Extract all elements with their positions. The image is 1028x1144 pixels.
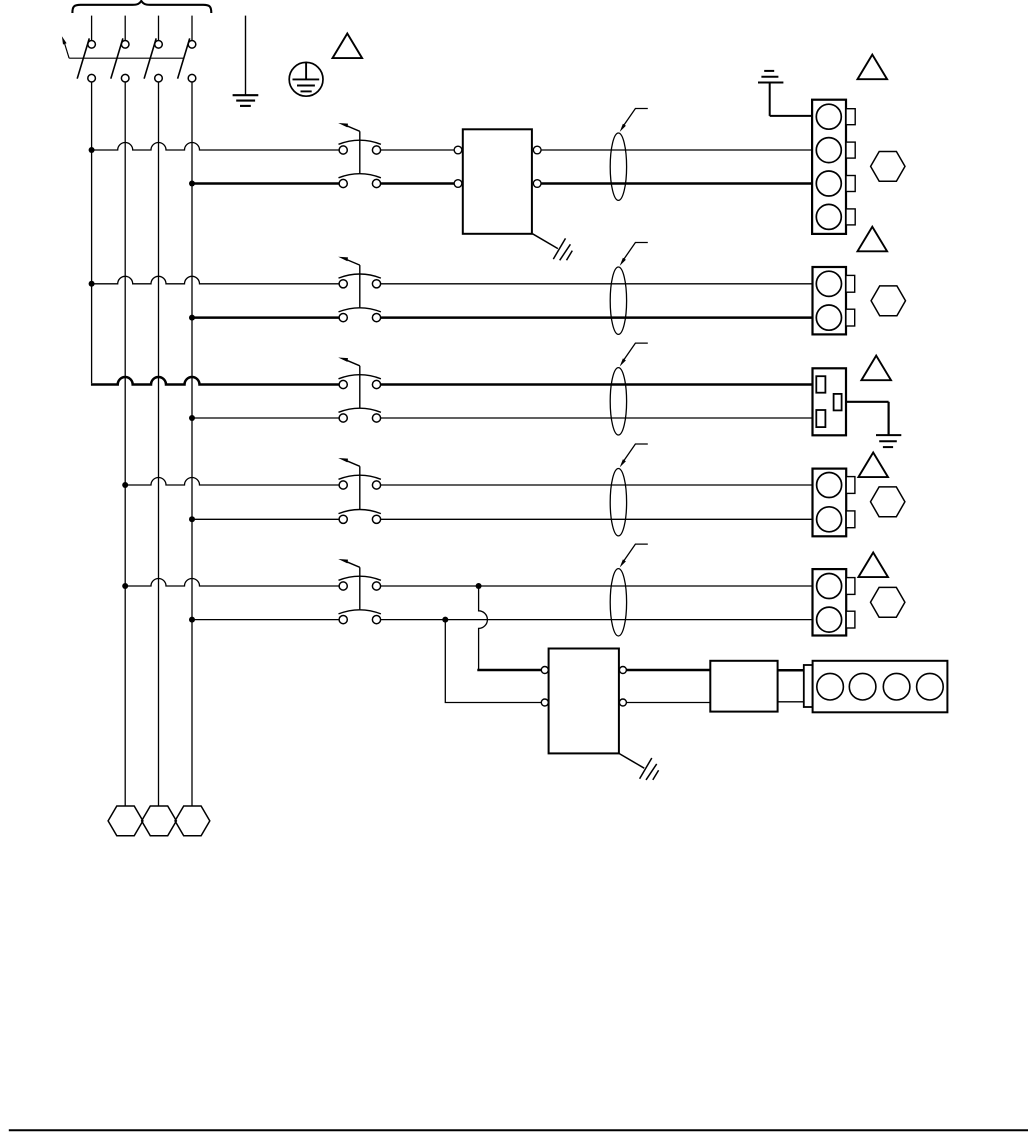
wire A2 out2 to plug [626,702,710,704]
triangle note marker row1 [858,55,888,80]
circuit breaker Q1 [338,123,381,188]
terminal A2 in2 [541,699,548,706]
hexagon note marker row2 [871,286,905,316]
brace grouping mains input [72,1,211,13]
connector X4 (2-pin) [813,469,855,537]
wire row1 bottom mid [381,182,455,185]
wire row3 top left [91,377,339,384]
terminal A1 in1 [454,146,462,154]
switch mechanical tie bar [69,57,183,59]
wire tap2 down to A2 [445,620,541,703]
wire row4 bottom right [381,518,813,520]
bus wire L4 vertical [191,82,193,806]
ground at X3 [846,402,901,447]
terminal A1 out1 [533,146,541,154]
wire row4 bottom left [192,518,339,520]
outlet strip X6 (4 sockets) [813,661,948,713]
disconnect switch pole 4 [178,16,196,82]
wire row5 top right [381,585,813,587]
hexagon marker L3 end [142,806,177,836]
node tap row5 top for A2 [476,583,482,589]
circuit breaker Q3 [338,358,381,423]
bus wire L3 vertical [158,82,160,806]
wire tap1 down to A2 [479,586,488,670]
filter box A1 [463,129,532,234]
circuit breaker Q2 [338,257,381,322]
cable shield W5 [610,569,626,636]
wire row5 bottom left [192,619,339,621]
node row4 tap L4 [189,516,195,522]
terminal A1 in2 [454,180,462,188]
wire plug link bottom [778,701,804,703]
node row4 tap L2 [122,482,128,488]
triangle note marker row2 [858,227,888,252]
triangle note marker (top) [333,34,363,59]
disconnect switch pole 3 [144,16,162,82]
disconnect switch pole 2 [111,16,129,82]
hexagon marker L4 end [175,806,210,836]
connector X1 (4-pin) [812,100,855,234]
leader arrow to shield W3 [620,343,648,366]
node row1 tap L1 [89,147,95,153]
triangle note marker row5 [858,553,888,578]
disconnect switch pole 1 [77,16,95,82]
terminal A2 out2 [619,699,626,706]
node row1 tap L4 [189,181,195,187]
triangle note marker row4 [858,453,888,478]
circuit breaker Q4 [338,458,381,523]
terminal A2 in1 [541,667,548,674]
node row5 tap L2 [122,583,128,589]
chassis ground at A2 [619,753,659,780]
filter box A2 [549,649,619,754]
terminal A2 out1 [619,667,626,674]
wire plug link top [778,669,804,672]
wire row1 top mid [381,149,455,151]
node tap row5 bottom for A2 [442,617,448,623]
node row3 tap L4 [189,415,195,421]
wire row1 bottom right [541,182,812,185]
wire row3 bottom right [381,417,813,419]
cable shield W2 [610,267,626,334]
terminal A1 out2 [533,180,541,188]
wire row2 top left [92,276,340,284]
switch actuator arrow [62,36,69,58]
wire row1 top left [92,143,340,150]
circuit breaker Q5 [338,559,381,624]
ground wire to X1 pin1 [758,71,812,116]
triangle note marker row3 [861,356,891,381]
wire row2 top right [381,283,813,285]
wire row4 top left [125,478,339,485]
ground symbol (earth) [233,16,259,106]
page footer rule [9,1129,1028,1131]
wire row3 bottom left [192,417,339,419]
connector X5 (2-pin) [813,569,855,635]
wire row1 top right [541,149,812,151]
cable shield W3 [610,368,626,435]
wire row3 top right [381,383,813,386]
wire row5 top left [125,579,339,586]
leader arrow to shield W4 [620,444,648,467]
connector X2 (2-pin) [813,267,855,334]
outlet X3 (receptacle) [813,368,847,435]
leader arrow to shield W5 [620,544,648,567]
bus wire L1 vertical [91,82,93,383]
wire row2 bottom left [192,316,339,319]
protective earth (PE) symbol [289,62,323,96]
wire row5 bottom right [381,619,813,621]
cable shield W1 [610,133,626,200]
node row5 tap L4 [189,617,195,623]
wire A2 out1 to plug [626,669,710,672]
wire row1 bottom left [192,182,339,185]
chassis ground at A1 [533,234,573,260]
hexagon note marker row5 [871,587,905,617]
hexagon note marker row4 [871,487,905,517]
wire row4 top right [381,484,813,486]
bus wire L2 vertical [124,82,126,806]
hexagon marker L2 end [108,806,143,836]
plug collar B2 [804,665,813,707]
plug body B1 [710,661,777,712]
leader arrow to shield W2 [620,243,648,266]
node row2 tap L4 [189,315,195,321]
leader arrow to shield W1 [620,109,648,132]
node row2 tap L1 [89,281,95,287]
wire tap1 horizontal to A2 [477,669,541,672]
cable shield W4 [610,469,626,536]
wire row2 bottom right [381,316,813,319]
hexagon note marker row1 [871,152,905,182]
